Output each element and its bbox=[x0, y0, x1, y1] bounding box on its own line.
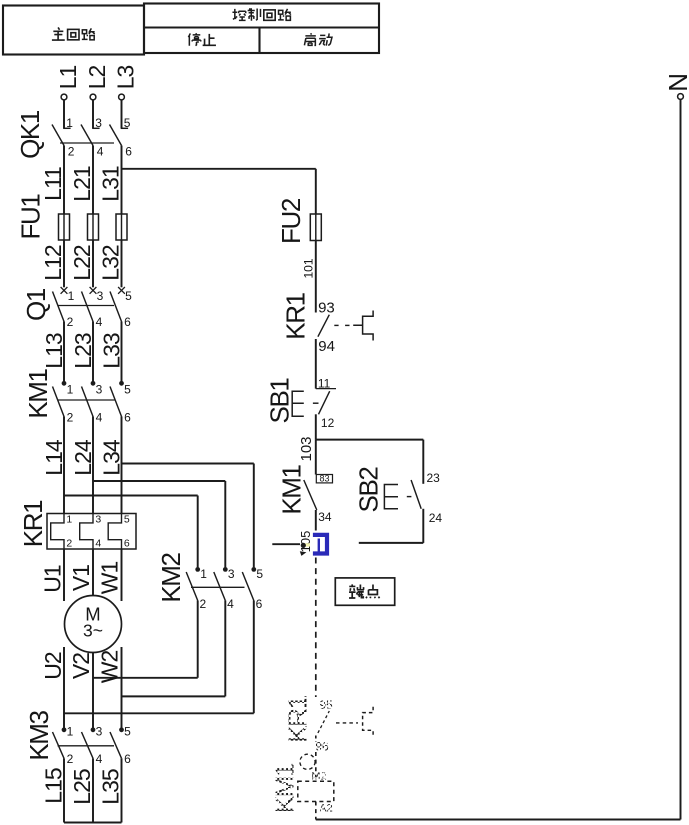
svg-text:KM3: KM3 bbox=[24, 710, 54, 760]
KR1 NC contact blade bbox=[318, 315, 329, 337]
svg-text:1: 1 bbox=[66, 514, 72, 526]
wire L14 bbox=[63, 417, 65, 514]
KM1 aux pin 83 boxed label bbox=[316, 475, 332, 483]
KM1 terminal dot pin 3 bbox=[91, 381, 96, 386]
svg-text:3~: 3~ bbox=[83, 621, 103, 641]
svg-text:L1: L1 bbox=[55, 66, 81, 90]
wire L32 bbox=[121, 240, 123, 287]
svg-text:2: 2 bbox=[68, 145, 75, 159]
Q1 breaker cross pole 3 bbox=[90, 287, 97, 294]
wire N bottom return bbox=[316, 819, 681, 821]
ghost coil KM1 rectangle (dashed) bbox=[298, 781, 334, 801]
wire V2 to KM2 pin2 bbox=[93, 677, 198, 679]
wire L34 bbox=[121, 417, 123, 514]
terminal circle L3 bbox=[119, 94, 125, 100]
svg-text:3: 3 bbox=[95, 116, 102, 130]
svg-text:2: 2 bbox=[66, 538, 72, 550]
ghost circle element bbox=[300, 754, 315, 769]
svg-text:5: 5 bbox=[125, 289, 132, 303]
table text 主回路 bbox=[52, 27, 65, 40]
ghost trip actuator (dashed) bbox=[363, 707, 374, 737]
svg-text:6: 6 bbox=[125, 145, 132, 159]
svg-text:QK1: QK1 bbox=[15, 110, 45, 159]
KM1 blade bbox=[82, 387, 94, 417]
svg-text:83: 83 bbox=[319, 474, 329, 484]
KM3 blade bbox=[110, 732, 122, 758]
wire L1 drop to QK1 bbox=[63, 100, 65, 128]
wire to KM1 aux bbox=[315, 440, 317, 475]
svg-text:L31: L31 bbox=[98, 166, 124, 202]
svg-text:L24: L24 bbox=[70, 439, 96, 476]
svg-text:KM1: KM1 bbox=[277, 464, 307, 514]
wire W1 bbox=[121, 549, 123, 601]
svg-text:4: 4 bbox=[95, 538, 101, 550]
Q1 blade bbox=[82, 292, 94, 322]
wire from L31 phase to control circuit bbox=[122, 168, 316, 170]
wire tap L24 to KM2 pole2 bbox=[93, 480, 225, 482]
svg-text:V1: V1 bbox=[68, 565, 94, 591]
svg-text:L35: L35 bbox=[98, 769, 124, 805]
KM1 blade bbox=[110, 387, 122, 417]
wire L2 drop to QK1 bbox=[92, 100, 94, 128]
wire U2 bbox=[63, 647, 65, 729]
KM3 terminal dot pin 3 bbox=[91, 727, 96, 732]
QK1 fixed contact seat pole 2 bbox=[92, 127, 99, 129]
svg-text:1: 1 bbox=[67, 383, 74, 397]
svg-text:L2: L2 bbox=[84, 66, 110, 90]
svg-text:23: 23 bbox=[427, 471, 441, 485]
table line: stop/start divider bbox=[258, 28, 260, 54]
QK1 fixed contact seat pole 1 bbox=[63, 127, 70, 129]
wire 93-94 segment bbox=[315, 339, 317, 389]
KM3 terminal dot pin 5 bbox=[119, 727, 124, 732]
KM3 terminal dot pin 1 bbox=[62, 727, 67, 732]
svg-text:6: 6 bbox=[124, 752, 131, 766]
table frame: main header box 主回路 bbox=[3, 6, 144, 55]
svg-text:6: 6 bbox=[124, 411, 131, 425]
svg-text:FU1: FU1 bbox=[16, 194, 46, 240]
Q1 linkage bar bbox=[58, 305, 115, 307]
wire L25 bbox=[92, 758, 94, 822]
fuse FU2 body bbox=[310, 214, 321, 241]
wire SB2 bottom stub bbox=[359, 542, 424, 544]
QK1 blade bbox=[52, 125, 64, 146]
svg-text:6: 6 bbox=[124, 538, 130, 550]
svg-text:3: 3 bbox=[97, 289, 104, 303]
svg-text:FU2: FU2 bbox=[276, 198, 306, 244]
thermal relay KR1 box bbox=[47, 514, 136, 550]
svg-text:L33: L33 bbox=[99, 333, 125, 369]
KR1 trip actuator symbol bbox=[353, 311, 373, 341]
wire L31 bbox=[121, 146, 123, 215]
svg-text:V2: V2 bbox=[68, 653, 94, 679]
callout text 端点 bbox=[349, 584, 364, 598]
svg-text:L15: L15 bbox=[41, 768, 67, 804]
svg-text:2: 2 bbox=[200, 597, 207, 611]
wire SB2 upper bbox=[422, 440, 424, 484]
KM2 linkage bar bbox=[191, 586, 245, 588]
svg-text:1: 1 bbox=[66, 116, 73, 130]
svg-text:U1: U1 bbox=[40, 565, 66, 593]
wire to FU2 bbox=[315, 169, 317, 214]
svg-text:N: N bbox=[663, 74, 689, 91]
svg-text:2: 2 bbox=[67, 315, 74, 329]
SB1 pushbutton actuator E bbox=[292, 391, 304, 416]
svg-text:KM1: KM1 bbox=[23, 368, 53, 418]
SB1 actuator link dash bbox=[313, 402, 319, 404]
terminal 105 arrow mark bbox=[300, 551, 307, 556]
wire L3 drop to QK1 bbox=[121, 100, 123, 128]
svg-text:L32: L32 bbox=[98, 245, 124, 281]
svg-text:2: 2 bbox=[67, 752, 74, 766]
fuse FU1 pole 2 body bbox=[88, 214, 99, 240]
svg-text:3: 3 bbox=[95, 514, 101, 526]
svg-text:1: 1 bbox=[67, 725, 74, 739]
wire U2 to KM2 pin6 bbox=[64, 712, 254, 714]
svg-text:KR1: KR1 bbox=[283, 695, 313, 742]
svg-text:W1: W1 bbox=[97, 562, 123, 595]
wire 101 bbox=[315, 241, 317, 313]
svg-text:A2: A2 bbox=[319, 803, 332, 815]
svg-text:L12: L12 bbox=[40, 245, 66, 281]
KM2 blade bbox=[242, 572, 254, 601]
wire L15 bbox=[63, 758, 65, 822]
wire U1 bbox=[63, 549, 65, 601]
ghost wire to N (dashed) bbox=[315, 802, 317, 820]
table text 控制回路 bbox=[232, 9, 245, 20]
KR1 heater element pole 3-4 bbox=[80, 514, 93, 550]
svg-text:95: 95 bbox=[319, 698, 333, 712]
Q1 breaker cross pole 5 bbox=[118, 287, 125, 294]
svg-text:24: 24 bbox=[429, 511, 443, 525]
svg-text:94: 94 bbox=[318, 338, 335, 355]
Q1 breaker cross pole 1 bbox=[61, 287, 68, 294]
KM2 terminal dot pin 3 bbox=[223, 567, 228, 572]
KM2 terminal dot pin 1 bbox=[195, 567, 200, 572]
KM1 terminal dot pin 1 bbox=[62, 381, 67, 386]
wire tap L14 to KM2 pole1 bbox=[64, 495, 198, 497]
svg-text:L22: L22 bbox=[69, 245, 95, 281]
svg-text:93: 93 bbox=[318, 300, 335, 317]
svg-text:KM2: KM2 bbox=[156, 552, 186, 602]
wire L21 bbox=[92, 146, 94, 215]
svg-text:KM1: KM1 bbox=[270, 763, 300, 813]
KM2 blade bbox=[214, 572, 226, 601]
terminal circle L1 bbox=[61, 94, 67, 100]
wire L12 bbox=[63, 240, 65, 287]
svg-text:5: 5 bbox=[124, 116, 131, 130]
svg-text:96: 96 bbox=[315, 740, 329, 754]
QK1 linkage bar bbox=[60, 142, 114, 144]
wire L22 bbox=[92, 240, 94, 287]
fuse FU1 pole 1 body bbox=[59, 214, 70, 240]
table line: control header middle divider bbox=[144, 26, 379, 28]
wire L33 bbox=[121, 322, 123, 382]
star point bar bbox=[64, 822, 122, 824]
KM1 blade bbox=[53, 387, 65, 417]
wire node 103 to SB2 branch bbox=[316, 439, 424, 441]
terminal circle N bbox=[678, 94, 684, 100]
SB1 fixed contact seat bbox=[316, 388, 336, 390]
KR1 trip linkage dashes bbox=[334, 324, 338, 326]
svg-text:SB2: SB2 bbox=[354, 467, 384, 513]
KM1 terminal dot pin 5 bbox=[119, 381, 124, 386]
KM2 blade bbox=[186, 572, 198, 601]
svg-text:U2: U2 bbox=[40, 652, 66, 680]
svg-text:3: 3 bbox=[96, 383, 103, 397]
KR1 heater element pole 5-6 bbox=[108, 514, 121, 550]
callout box 端点 bbox=[335, 578, 394, 605]
svg-text:3: 3 bbox=[96, 725, 103, 739]
svg-text:1: 1 bbox=[200, 567, 207, 581]
svg-text:L13: L13 bbox=[41, 333, 67, 369]
svg-text:L34: L34 bbox=[99, 439, 125, 476]
SB2 actuator link dash bbox=[407, 496, 412, 498]
svg-text:4: 4 bbox=[227, 597, 234, 611]
svg-text:101: 101 bbox=[302, 258, 316, 278]
table text 启动 bbox=[304, 33, 315, 45]
motor M1 circle bbox=[65, 596, 122, 653]
Q1 blade bbox=[110, 292, 122, 322]
svg-text:4: 4 bbox=[96, 411, 103, 425]
wire W2 to KM2 pin4 bbox=[122, 695, 226, 697]
svg-text:103: 103 bbox=[298, 436, 315, 461]
QK1 fixed contact seat pole 3 bbox=[121, 127, 128, 129]
svg-text:5: 5 bbox=[124, 383, 131, 397]
wire L35 bbox=[121, 758, 123, 822]
wire tap L34 to KM2 pole3 bbox=[122, 463, 254, 465]
KM1 linkage bar bbox=[58, 399, 115, 401]
KM2 terminal dot pin 5 bbox=[251, 567, 256, 572]
QK1 blade bbox=[110, 125, 122, 146]
wire L11 bbox=[63, 146, 65, 215]
dashed wire from terminal 105 down bbox=[315, 558, 317, 698]
wire to terminal 105 bbox=[315, 510, 317, 531]
KM3 blade bbox=[53, 732, 65, 758]
ghost KR1 NC blade (dashed) bbox=[318, 711, 329, 733]
wire L13 bbox=[63, 322, 65, 382]
SB1 NC blade bbox=[319, 391, 330, 414]
svg-text:4: 4 bbox=[96, 315, 103, 329]
KM1 aux NO blade bbox=[304, 480, 317, 510]
QK1 blade bbox=[81, 125, 93, 146]
svg-text:KR1: KR1 bbox=[18, 500, 48, 547]
wire to node 103 bbox=[315, 414, 317, 439]
terminal circle L2 bbox=[90, 94, 96, 100]
fuse FU1 pole 3 body bbox=[116, 214, 127, 240]
svg-text:1: 1 bbox=[68, 289, 75, 303]
svg-text:Q1: Q1 bbox=[21, 288, 51, 321]
Q1 blade bbox=[53, 292, 65, 322]
svg-text:34: 34 bbox=[318, 510, 332, 524]
svg-text:KR1: KR1 bbox=[281, 292, 311, 339]
wire V2 bbox=[92, 653, 94, 730]
table text 停止 bbox=[188, 33, 200, 46]
SB2 pushbutton actuator E bbox=[384, 485, 398, 509]
svg-text:L14: L14 bbox=[41, 439, 67, 476]
svg-text:6: 6 bbox=[124, 315, 131, 329]
ghost trip linkage dashes bbox=[336, 722, 358, 724]
svg-text:6: 6 bbox=[256, 597, 263, 611]
KM3 linkage bar bbox=[58, 745, 115, 747]
svg-text:L25: L25 bbox=[69, 769, 95, 805]
SB2 NO blade bbox=[411, 480, 421, 509]
svg-text:105: 105 bbox=[298, 531, 313, 553]
KM3 blade bbox=[82, 732, 94, 758]
junction dot at terminal 105 bbox=[301, 543, 306, 548]
svg-text:2: 2 bbox=[67, 411, 74, 425]
wire stub left of terminal 105 bbox=[272, 543, 300, 545]
svg-text:5: 5 bbox=[124, 725, 131, 739]
terminal 105 yellow dab bbox=[305, 543, 310, 546]
svg-text:5: 5 bbox=[124, 514, 130, 526]
svg-text:3: 3 bbox=[228, 567, 235, 581]
svg-text:L23: L23 bbox=[70, 333, 96, 369]
KR1 heater element pole 1-2 bbox=[51, 514, 64, 550]
svg-text:12: 12 bbox=[321, 416, 335, 430]
svg-text:L21: L21 bbox=[69, 166, 95, 202]
wire V1 bbox=[92, 549, 94, 596]
wire L24 bbox=[92, 417, 94, 514]
svg-text:5: 5 bbox=[256, 567, 263, 581]
svg-text:L3: L3 bbox=[113, 66, 139, 90]
wire W2 bbox=[121, 647, 123, 729]
table frame: control header box 控制回路 bbox=[144, 4, 379, 54]
svg-text:SB1: SB1 bbox=[265, 378, 295, 424]
wire N vertical bbox=[680, 99, 682, 819]
terminal 105 blue highlight bracket bbox=[313, 535, 327, 554]
svg-text:4: 4 bbox=[96, 752, 103, 766]
wire L23 bbox=[92, 322, 94, 382]
wire SB2 lower bbox=[422, 509, 424, 543]
svg-text:4: 4 bbox=[97, 145, 104, 159]
